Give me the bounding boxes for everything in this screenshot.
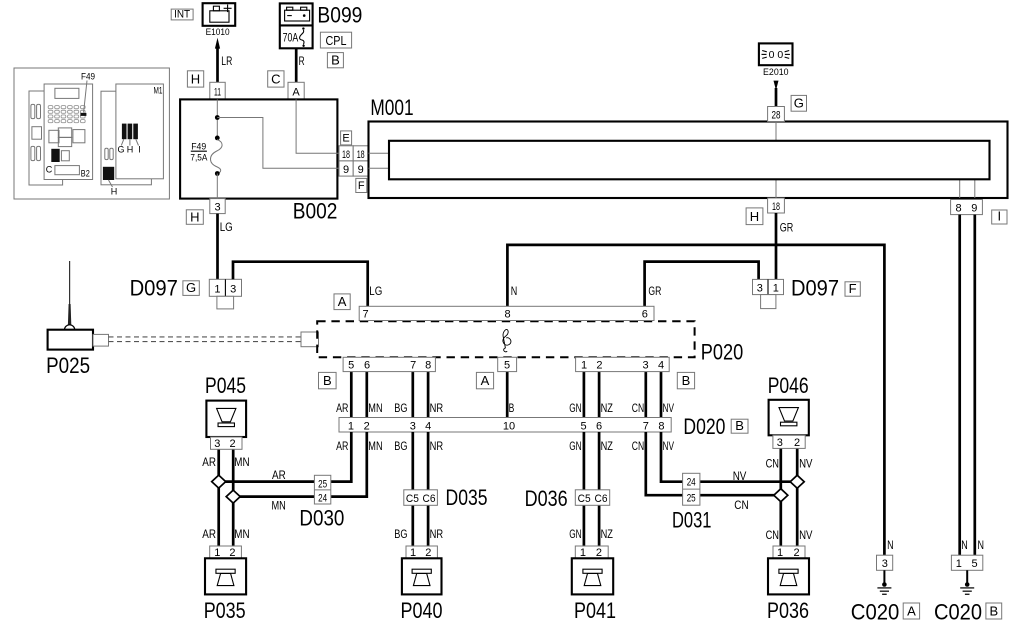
connector D097 G <box>130 275 242 309</box>
pin 28 of M001 <box>768 107 785 122</box>
svg-text:AR: AR <box>336 401 349 415</box>
svg-text:9: 9 <box>358 164 364 176</box>
svg-text:9: 9 <box>343 164 349 176</box>
svg-text:D036: D036 <box>525 486 568 511</box>
wire GN (P020 to D020) <box>583 372 586 418</box>
svg-text:P025: P025 <box>46 353 90 378</box>
junction on AR wire <box>212 475 226 488</box>
internal wire node to pin 9 <box>217 118 339 169</box>
svg-text:C5: C5 <box>578 493 591 505</box>
svg-text:18: 18 <box>772 201 780 213</box>
svg-text:3: 3 <box>214 202 220 214</box>
svg-text:11: 11 <box>214 86 221 98</box>
wire NR (D020 pin 4 to P040 pin 2) <box>427 432 430 546</box>
svg-text:D031: D031 <box>672 508 712 533</box>
wire LG (B002 pin 3 to D097) <box>216 214 219 280</box>
svg-text:GR: GR <box>780 221 794 235</box>
net label G <box>791 95 806 111</box>
svg-text:3: 3 <box>643 360 649 372</box>
svg-text:NR: NR <box>430 401 444 415</box>
node dot 2 <box>215 136 220 141</box>
svg-text:MN: MN <box>272 499 286 513</box>
battery B099 <box>280 2 363 48</box>
svg-text:3: 3 <box>777 437 783 449</box>
svg-text:A: A <box>907 603 916 618</box>
P020 pin strip bottom-left (5 6 7 8) <box>343 357 435 371</box>
svg-text:70A: 70A <box>283 30 299 44</box>
connector D020 <box>339 414 748 439</box>
svg-text:R: R <box>299 54 305 68</box>
svg-text:8: 8 <box>955 203 961 215</box>
svg-text:2: 2 <box>794 437 800 449</box>
speaker P040 <box>401 546 443 623</box>
svg-text:B2: B2 <box>81 169 90 179</box>
svg-text:INT: INT <box>174 9 190 21</box>
net label A (middle) <box>476 372 493 388</box>
net label E <box>341 131 352 145</box>
svg-text:10: 10 <box>503 420 515 432</box>
wire MN (D020 pin 2 to junction via D030 pin 24) <box>233 432 367 497</box>
wire BG (D020 pin 3 to P040 pin 1) <box>411 432 414 546</box>
svg-text:1: 1 <box>581 360 587 372</box>
svg-text:5: 5 <box>581 420 587 432</box>
svg-text:BG: BG <box>394 401 407 415</box>
svg-text:1: 1 <box>777 547 783 559</box>
wire AR (P020 to D020) <box>350 372 353 418</box>
connector D035 <box>404 485 488 510</box>
svg-text:H: H <box>190 209 199 224</box>
svg-text:LG: LG <box>220 220 233 234</box>
wire AR (P045 pin 3 to P035 pin 1) <box>217 449 220 546</box>
svg-text:CN: CN <box>766 528 779 542</box>
wire NV (P046 pin 2 to P036 pin 2) <box>796 448 799 546</box>
svg-text:P041: P041 <box>574 598 616 623</box>
ground C020 B <box>966 570 968 584</box>
svg-text:F: F <box>358 180 365 192</box>
svg-text:A: A <box>338 294 347 309</box>
wire to E2010 with arrow <box>774 81 779 91</box>
P020 pin 5 (middle) <box>498 357 517 371</box>
svg-text:2: 2 <box>425 547 431 559</box>
svg-text:B: B <box>989 603 998 618</box>
svg-text:7: 7 <box>643 420 649 432</box>
svg-text:7: 7 <box>363 309 369 321</box>
svg-text:D030: D030 <box>299 506 344 531</box>
svg-text:5: 5 <box>504 360 510 372</box>
pin A of B002 <box>288 82 304 99</box>
P020 pin strip top (7 8 6) <box>359 306 654 320</box>
label CPL <box>320 32 351 48</box>
svg-text:9: 9 <box>971 203 977 215</box>
svg-text:2: 2 <box>596 360 602 372</box>
svg-text:25: 25 <box>687 493 696 505</box>
wire MN (P045 pin 2 to P035 pin 2) <box>232 449 235 546</box>
svg-text:P040: P040 <box>401 598 443 623</box>
svg-text:3: 3 <box>757 283 763 295</box>
svg-text:C6: C6 <box>595 493 608 505</box>
svg-text:P045: P045 <box>205 373 246 398</box>
net label C <box>268 71 284 87</box>
svg-text:1: 1 <box>214 547 220 559</box>
svg-text:B: B <box>509 401 515 415</box>
node dot 3 <box>215 171 220 176</box>
net label B (left) <box>319 372 337 388</box>
svg-text:B: B <box>331 52 340 67</box>
junction on NV wire <box>790 475 804 488</box>
svg-text:MN: MN <box>368 401 382 415</box>
svg-text:H: H <box>127 145 134 155</box>
node dot 1 <box>215 115 220 120</box>
svg-text:GN: GN <box>569 401 581 415</box>
svg-text:18: 18 <box>342 149 350 161</box>
svg-text:8: 8 <box>504 309 510 321</box>
tweeter P045 <box>205 373 246 450</box>
svg-text:M1: M1 <box>154 86 163 96</box>
speaker P041 <box>572 546 616 623</box>
svg-text:4: 4 <box>658 360 664 372</box>
internal wire from pin 11 <box>216 99 218 140</box>
fuse 70A inside B099 <box>283 27 305 47</box>
svg-text:CN: CN <box>766 456 779 470</box>
svg-text:AR: AR <box>272 468 286 482</box>
svg-text:AR: AR <box>202 455 216 469</box>
svg-text:G: G <box>794 96 804 111</box>
svg-text:1: 1 <box>580 547 586 559</box>
connector D036 <box>525 486 610 511</box>
svg-text:1: 1 <box>214 283 220 295</box>
svg-text:LG: LG <box>369 284 382 298</box>
svg-text:3: 3 <box>230 283 236 295</box>
wire GN (D020 pin 5 to P041 pin 1) <box>583 432 586 546</box>
svg-text:B: B <box>682 373 691 388</box>
svg-text:A: A <box>292 86 300 98</box>
svg-text:D020: D020 <box>683 414 725 439</box>
svg-text:D097: D097 <box>130 275 178 300</box>
svg-text:24: 24 <box>318 493 327 505</box>
wire BG (P020 to D020) <box>411 372 414 418</box>
svg-text:F49: F49 <box>191 141 206 151</box>
svg-text:G: G <box>186 280 196 295</box>
net label B <box>327 53 343 68</box>
svg-text:24: 24 <box>687 476 696 488</box>
svg-text:1: 1 <box>956 558 962 570</box>
svg-text:1: 1 <box>773 283 779 295</box>
junction on CN wire <box>774 489 788 502</box>
svg-text:H: H <box>191 71 200 86</box>
svg-text:2: 2 <box>229 438 235 450</box>
speaker P035 <box>204 546 246 623</box>
wire N (P020 pin 8 to ground C020 A) <box>507 245 884 555</box>
svg-text:2: 2 <box>794 547 800 559</box>
fuse F49 7,5A symbol <box>210 140 222 174</box>
svg-text:NV: NV <box>799 456 812 470</box>
wire LR (B002 pin 11 to E1010) <box>215 38 220 49</box>
svg-text:NR: NR <box>430 527 444 541</box>
antenna P025 <box>46 261 108 378</box>
net label B (right) <box>677 372 694 388</box>
radio P020 (dashed) <box>317 321 694 357</box>
svg-text:GN: GN <box>569 527 581 541</box>
svg-text:C020: C020 <box>851 600 900 625</box>
internal wire pin A to pin 18 <box>296 99 339 153</box>
pin 9 of B002 <box>339 161 353 176</box>
svg-text:6: 6 <box>364 360 370 372</box>
antenna connector at P020 <box>301 332 319 347</box>
svg-text:N: N <box>887 538 894 552</box>
svg-text:H: H <box>750 209 759 224</box>
pin 3 of C020 A <box>877 555 893 570</box>
svg-text:2: 2 <box>229 547 235 559</box>
wire AR (D020 pin 1 to junction via D030 pin 25) <box>219 432 352 482</box>
svg-text:GR: GR <box>648 284 661 298</box>
svg-text:C5: C5 <box>406 493 419 505</box>
svg-text:AR: AR <box>336 439 349 453</box>
svg-text:P046: P046 <box>768 373 809 398</box>
svg-text:LR: LR <box>221 54 232 68</box>
net label H <box>187 71 203 87</box>
wire GR (P020 pin 6 to D097 pin 3) <box>645 262 759 307</box>
svg-text:P035: P035 <box>204 598 246 623</box>
svg-text:NZ: NZ <box>601 401 613 415</box>
svg-text:C6: C6 <box>423 493 436 505</box>
pin 9 of M001 <box>353 161 368 176</box>
svg-text:C: C <box>271 71 280 86</box>
svg-text:P020: P020 <box>701 340 744 365</box>
net label I <box>992 210 1007 224</box>
svg-text:NZ: NZ <box>601 439 613 453</box>
M001 internal pin lines <box>369 122 975 199</box>
pin 18 of M001 (bottom) <box>768 198 785 213</box>
svg-text:MN: MN <box>234 455 249 469</box>
treble clef icon <box>503 329 511 351</box>
connector D031 <box>672 473 712 532</box>
tweeter P046 <box>768 373 809 449</box>
svg-text:6: 6 <box>596 420 602 432</box>
P020 pin strip bottom-right (1 2 3 4) <box>576 357 670 371</box>
svg-text:MN: MN <box>368 439 382 453</box>
svg-text:N: N <box>978 538 985 552</box>
junction on MN wire <box>226 490 240 503</box>
connector D097 F <box>753 275 861 308</box>
pins 1 5 of C020 B <box>951 555 982 570</box>
wire GR (M001 pin 18 to D097 pin 1) <box>775 213 778 279</box>
wire N (M001 pin 9 to C020 B pin 5) <box>973 215 976 556</box>
svg-text:C: C <box>46 165 53 175</box>
svg-text:NV: NV <box>733 469 747 483</box>
pins 8 9 of M001 (bottom right) <box>951 200 983 215</box>
label INT <box>171 9 193 20</box>
svg-text:E: E <box>342 132 349 144</box>
speaker P036 <box>767 546 809 623</box>
internal wire to pin 3 <box>216 174 218 199</box>
wire CN (D020 pin 7 to junction via D031 pin 25) <box>646 432 782 495</box>
svg-text:G: G <box>117 145 124 155</box>
svg-text:BG: BG <box>394 527 407 541</box>
svg-text:MN: MN <box>234 527 249 541</box>
svg-text:0: 0 <box>777 49 783 61</box>
svg-text:A: A <box>481 373 490 388</box>
svg-text:D035: D035 <box>446 485 488 510</box>
pin 3 of B002 <box>210 199 225 214</box>
svg-text:F: F <box>849 281 857 296</box>
svg-text:M001: M001 <box>370 95 413 120</box>
wire NZ (P020 to D020) <box>598 372 601 418</box>
svg-text:7: 7 <box>410 360 416 372</box>
svg-text:4: 4 <box>425 420 431 432</box>
svg-text:25: 25 <box>318 478 327 490</box>
svg-text:0: 0 <box>769 49 775 61</box>
wire CN (P020 to D020) <box>644 372 647 418</box>
svg-text:B: B <box>323 373 332 388</box>
pin 11 of B002 <box>210 82 225 99</box>
svg-text:NR: NR <box>430 439 444 453</box>
svg-text:E1010: E1010 <box>206 27 230 38</box>
wire labels (below D020) <box>336 439 674 453</box>
ground C020 A <box>883 570 885 584</box>
pin 18 of B002 <box>339 146 353 161</box>
wire NR (P020 to D020) <box>427 372 430 418</box>
svg-text:D097: D097 <box>791 275 839 300</box>
svg-text:B: B <box>735 418 744 433</box>
svg-text:N: N <box>961 538 968 552</box>
wire NZ (D020 pin 6 to P041 pin 2) <box>598 432 601 546</box>
svg-text:2: 2 <box>596 547 602 559</box>
svg-text:I: I <box>997 209 1001 224</box>
svg-text:B002: B002 <box>293 199 338 224</box>
wire CN (P046 pin 3 to P036 pin 1) <box>779 448 782 546</box>
M001 inner module box <box>389 141 990 180</box>
fuse box location inset <box>14 68 169 199</box>
svg-text:I: I <box>138 145 141 155</box>
svg-text:3: 3 <box>882 558 888 570</box>
svg-text:CN: CN <box>632 439 644 453</box>
svg-text:18: 18 <box>357 149 365 161</box>
svg-text:NV: NV <box>799 528 812 542</box>
svg-text:5: 5 <box>972 558 978 570</box>
wire R (B099 to B002 pin A) <box>295 48 298 82</box>
wire LG (D097 pin 3 to P020 pin 7) <box>233 262 368 307</box>
svg-text:3: 3 <box>410 420 416 432</box>
svg-text:E2010: E2010 <box>763 67 789 78</box>
junction unit B002 <box>180 99 337 198</box>
svg-text:AR: AR <box>202 527 216 541</box>
svg-text:8: 8 <box>425 360 431 372</box>
body computer M001 <box>369 95 1008 198</box>
pin 18 of M001 <box>353 146 368 161</box>
svg-text:NV: NV <box>663 401 675 415</box>
svg-text:NV: NV <box>663 439 675 453</box>
net label A (left) <box>334 294 350 310</box>
svg-text:N: N <box>511 284 518 298</box>
battery positive E1010 <box>203 3 236 38</box>
svg-text:F49: F49 <box>81 72 95 82</box>
svg-text:1: 1 <box>410 547 416 559</box>
svg-text:6: 6 <box>642 309 648 321</box>
svg-text:CN: CN <box>632 401 644 415</box>
lamp E2010 <box>759 43 793 78</box>
svg-text:NZ: NZ <box>601 527 613 541</box>
svg-text:28: 28 <box>772 109 781 121</box>
svg-text:5: 5 <box>348 360 354 372</box>
wire NV (D020 pin 8 to junction via D031 pin 24) <box>661 432 797 482</box>
svg-text:H: H <box>111 187 118 197</box>
svg-text:3: 3 <box>214 438 220 450</box>
svg-text:BG: BG <box>394 439 407 453</box>
svg-text:P036: P036 <box>767 598 809 623</box>
svg-text:7,5A: 7,5A <box>190 152 207 162</box>
wire N (M001 pin 8 to C020 B pin 1) <box>958 215 961 556</box>
svg-text:CPL: CPL <box>326 33 347 48</box>
svg-text:C020: C020 <box>934 600 982 625</box>
wire NV (P020 to D020) <box>660 372 663 418</box>
net label H (below B002) <box>186 210 203 225</box>
wire MN (P020 to D020) <box>365 372 368 418</box>
svg-text:2: 2 <box>364 420 370 432</box>
wire labels (P020-D020 row) <box>336 401 674 415</box>
coax cable P025 to P020 <box>109 336 302 338</box>
svg-text:1: 1 <box>348 420 354 432</box>
svg-text:CN: CN <box>734 498 748 512</box>
svg-text:B099: B099 <box>317 2 362 27</box>
connector D030 <box>299 475 344 530</box>
wire B (P020 to D020) <box>506 372 509 418</box>
net label H (right) <box>746 208 763 225</box>
svg-text:8: 8 <box>658 420 664 432</box>
net label F <box>356 178 367 192</box>
svg-text:GN: GN <box>569 439 581 453</box>
